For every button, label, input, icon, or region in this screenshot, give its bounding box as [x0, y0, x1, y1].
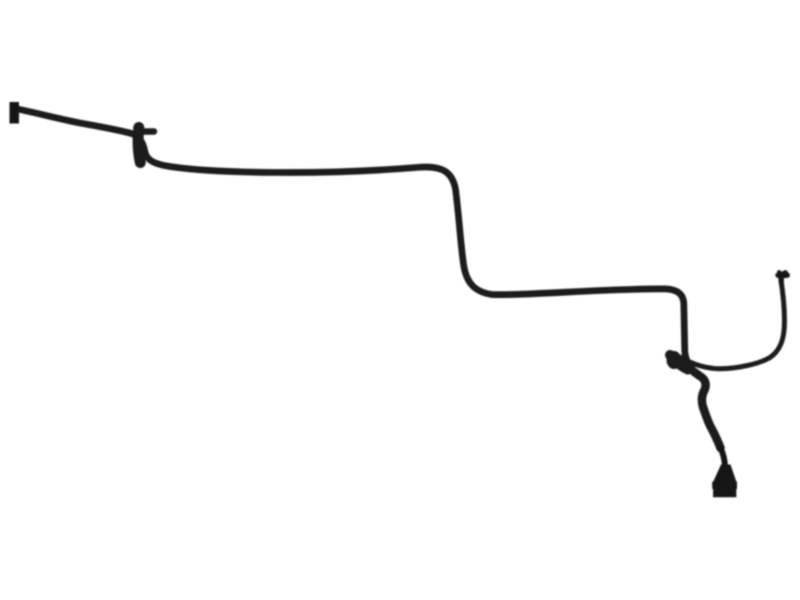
main fuel line tube	[17, 109, 721, 448]
clip knot at lower right	[670, 355, 688, 370]
top-right connector head	[777, 271, 788, 278]
clip pin stub	[139, 128, 154, 135]
thicker lower hose section	[684, 358, 721, 448]
thin vent tube from top-right connector	[682, 279, 785, 369]
bottom connector	[713, 465, 736, 498]
mounting clip body (vertical capsule)	[138, 128, 140, 163]
left end rubber fitting	[10, 102, 20, 124]
connector stem	[721, 448, 726, 466]
